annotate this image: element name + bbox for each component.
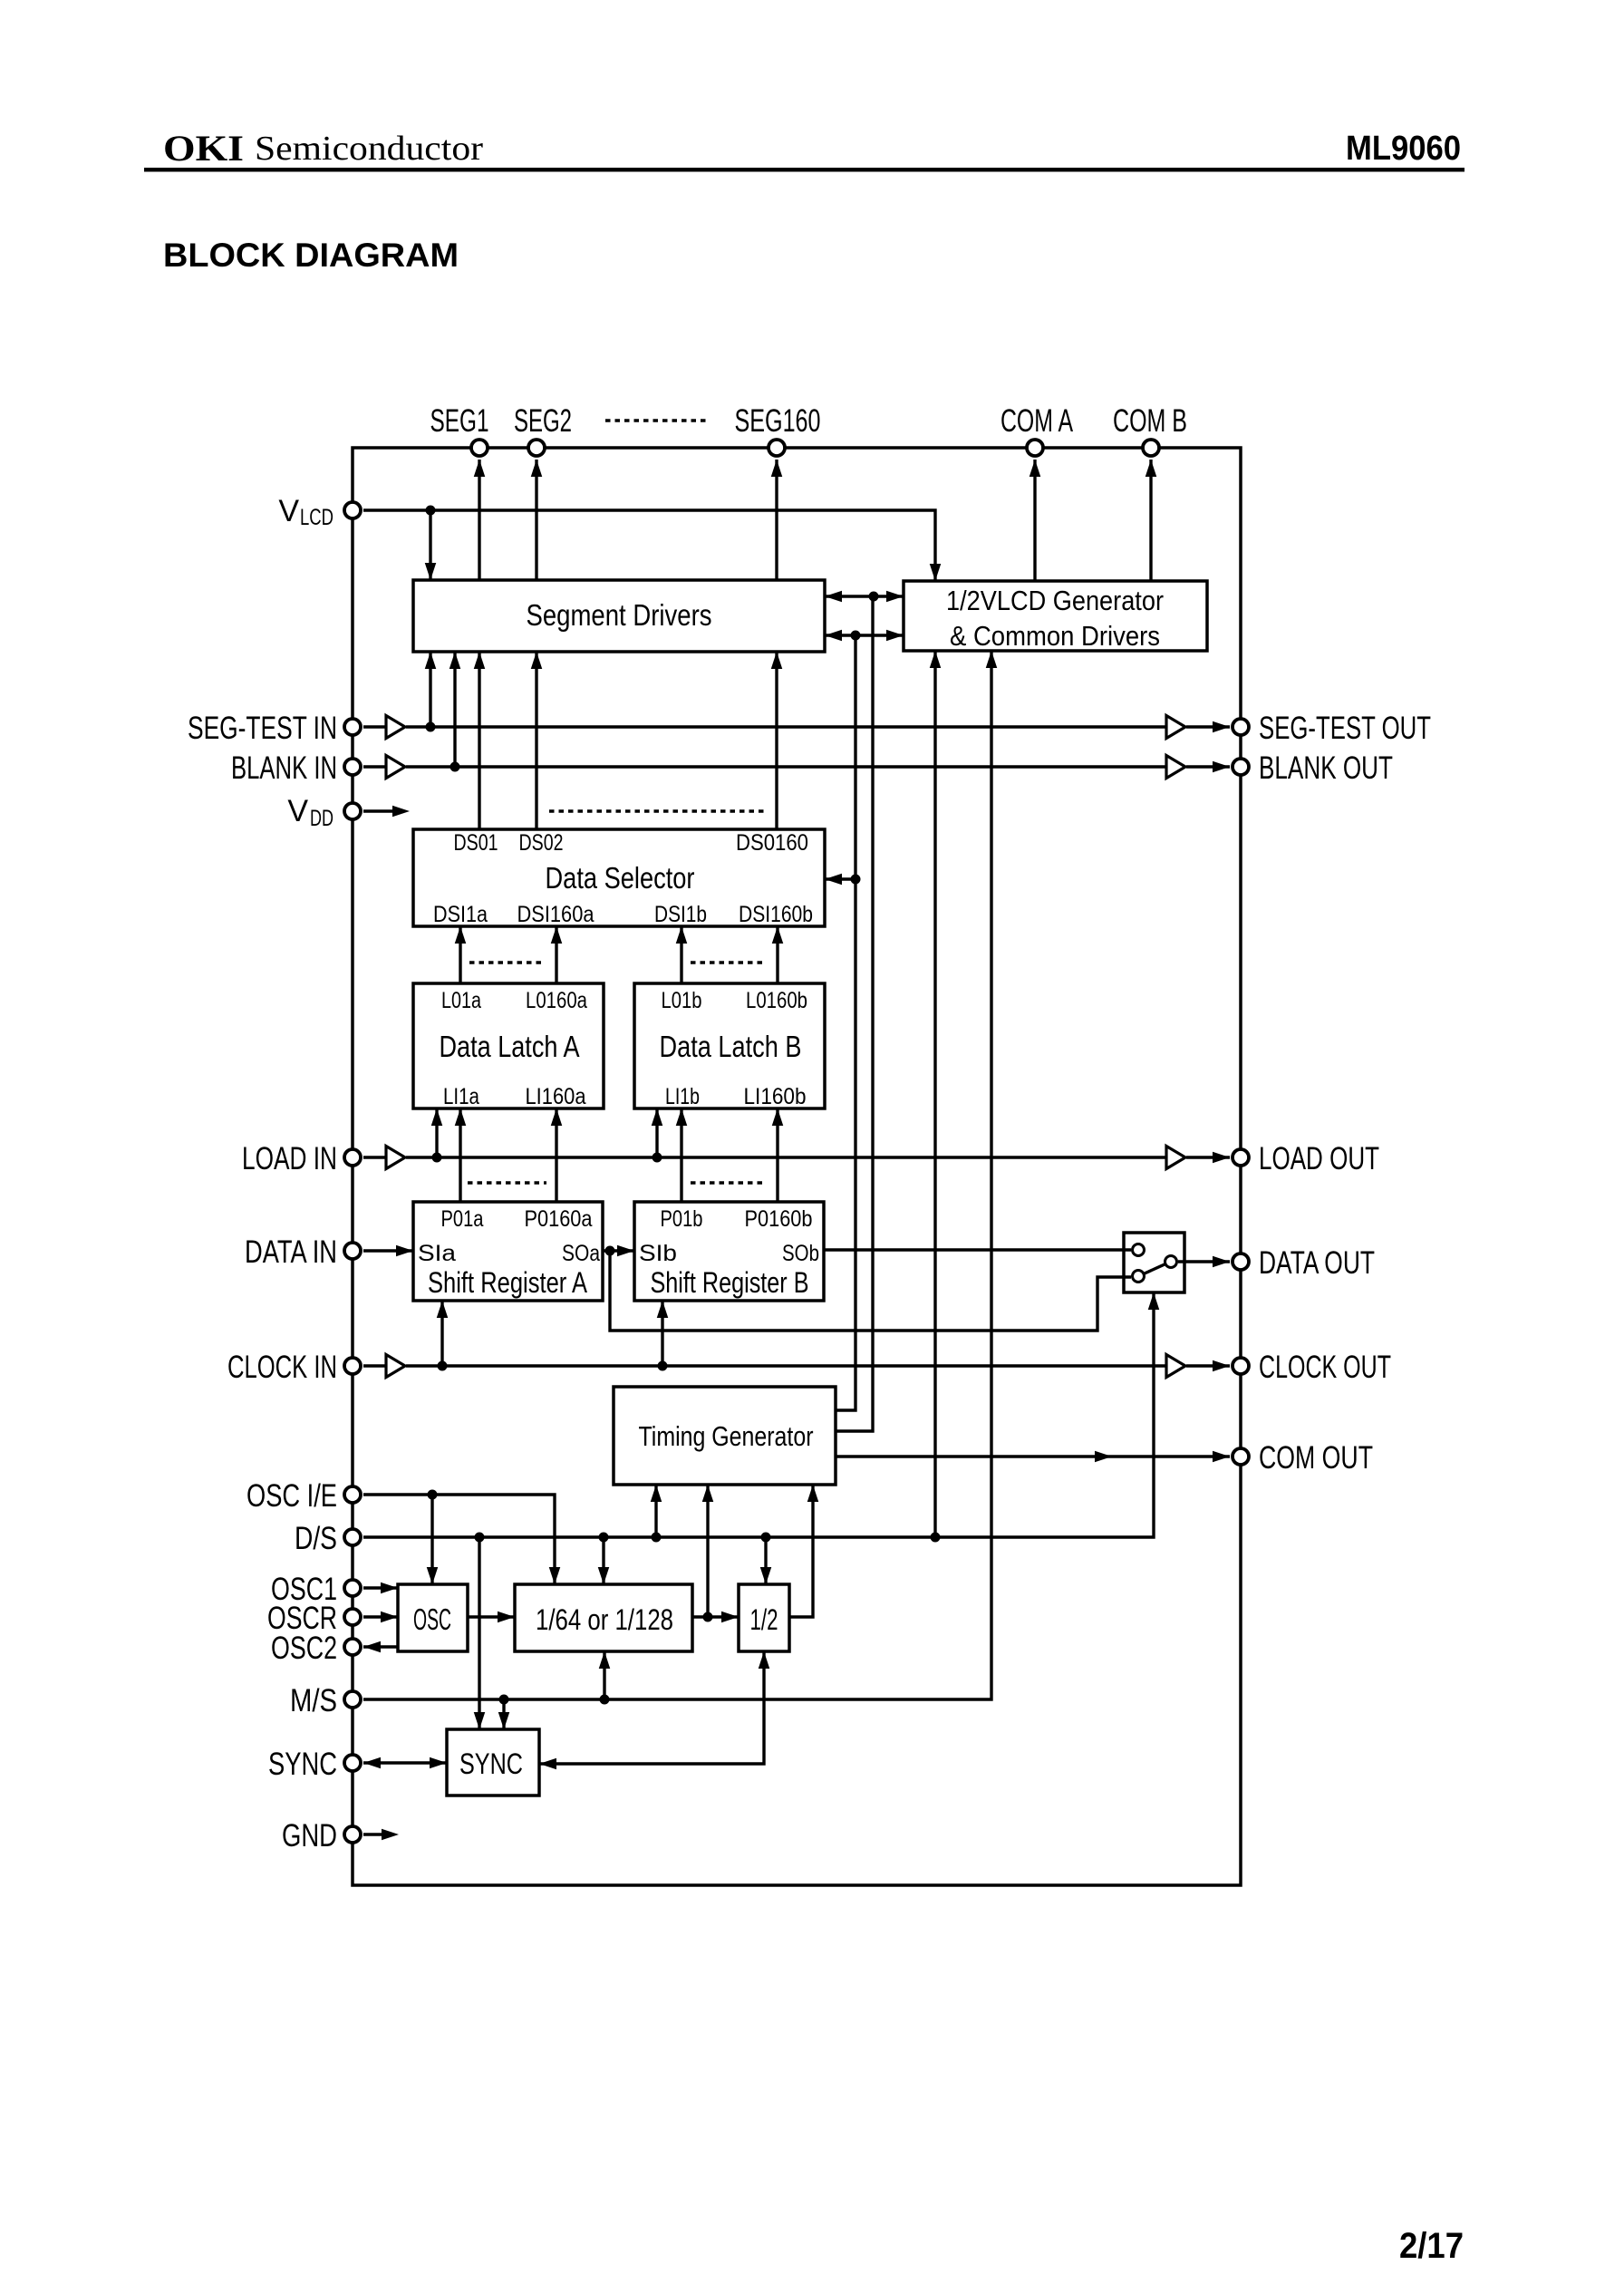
svg-text:2/17: 2/17 [1399, 2226, 1464, 2266]
svg-text:LOAD OUT: LOAD OUT [1259, 1141, 1379, 1176]
svg-text:V: V [278, 494, 299, 528]
svg-text:DSI1a: DSI1a [433, 902, 488, 927]
svg-text:Shift Register A: Shift Register A [428, 1266, 588, 1299]
svg-text:Data Latch B: Data Latch B [660, 1030, 802, 1063]
svg-text:DS0160: DS0160 [736, 830, 808, 856]
svg-text:COM A: COM A [1000, 403, 1073, 439]
svg-text:BLANK IN: BLANK IN [231, 750, 337, 786]
svg-text:BLANK OUT: BLANK OUT [1259, 750, 1393, 786]
svg-text:& Common Drivers: & Common Drivers [950, 620, 1160, 652]
svg-text:Semiconductor: Semiconductor [255, 130, 483, 168]
svg-text:CLOCK IN: CLOCK IN [227, 1350, 337, 1385]
svg-text:SOb: SOb [782, 1241, 819, 1266]
svg-text:L01b: L01b [662, 988, 702, 1013]
svg-text:OSC: OSC [413, 1602, 451, 1636]
svg-text:L01a: L01a [441, 988, 481, 1013]
svg-text:LI1a: LI1a [443, 1084, 479, 1109]
svg-text:OKI: OKI [163, 128, 244, 169]
svg-text:SYNC: SYNC [268, 1747, 337, 1782]
svg-text:L0160b: L0160b [746, 988, 807, 1013]
svg-text:SIa: SIa [418, 1241, 456, 1266]
svg-text:DATA OUT: DATA OUT [1259, 1245, 1375, 1281]
svg-text:1/64 or 1/128: 1/64 or 1/128 [536, 1603, 673, 1636]
svg-text:V: V [287, 794, 308, 828]
svg-text:M/S: M/S [290, 1683, 337, 1718]
svg-text:SEG160: SEG160 [735, 403, 821, 439]
svg-text:LI160a: LI160a [526, 1084, 586, 1109]
svg-text:LI1b: LI1b [665, 1084, 700, 1109]
svg-text:SIb: SIb [639, 1241, 677, 1266]
svg-text:DD: DD [310, 806, 333, 831]
svg-text:SEG2: SEG2 [514, 403, 572, 439]
svg-text:OSC I/E: OSC I/E [246, 1478, 337, 1514]
svg-text:OSC2: OSC2 [271, 1631, 337, 1666]
svg-text:CLOCK OUT: CLOCK OUT [1259, 1350, 1391, 1385]
svg-text:Segment Drivers: Segment Drivers [527, 598, 712, 632]
svg-text:1/2: 1/2 [750, 1603, 778, 1636]
svg-text:SEG-TEST IN: SEG-TEST IN [188, 711, 337, 746]
svg-text:D/S: D/S [295, 1521, 337, 1556]
svg-text:Data Latch A: Data Latch A [440, 1030, 580, 1063]
svg-text:Shift Register B: Shift Register B [651, 1266, 809, 1299]
svg-text:P0160a: P0160a [525, 1206, 593, 1232]
svg-text:COM OUT: COM OUT [1259, 1440, 1373, 1476]
svg-text:ML9060: ML9060 [1346, 130, 1461, 168]
svg-text:LOAD IN: LOAD IN [242, 1141, 337, 1176]
svg-text:DSI160b: DSI160b [739, 902, 813, 927]
svg-text:P01b: P01b [661, 1206, 703, 1232]
svg-text:Timing Generator: Timing Generator [639, 1420, 814, 1452]
svg-text:LI160b: LI160b [744, 1084, 807, 1109]
svg-text:Data Selector: Data Selector [546, 861, 695, 895]
svg-text:SYNC: SYNC [459, 1747, 523, 1780]
svg-text:DS02: DS02 [519, 830, 564, 856]
svg-text:COM B: COM B [1113, 403, 1187, 439]
svg-text:DATA IN: DATA IN [245, 1234, 337, 1270]
svg-text:SOa: SOa [562, 1241, 600, 1266]
svg-text:DSI1b: DSI1b [654, 902, 707, 927]
svg-text:DSI160a: DSI160a [517, 902, 594, 927]
svg-text:1/2VLCD Generator: 1/2VLCD Generator [946, 585, 1164, 616]
svg-text:L0160a: L0160a [526, 988, 587, 1013]
svg-text:P01a: P01a [441, 1206, 484, 1232]
svg-text:GND: GND [282, 1818, 337, 1854]
svg-text:SEG-TEST OUT: SEG-TEST OUT [1259, 711, 1431, 746]
svg-text:LCD: LCD [300, 505, 333, 530]
svg-text:BLOCK DIAGRAM: BLOCK DIAGRAM [163, 237, 459, 274]
svg-text:SEG1: SEG1 [430, 403, 489, 439]
svg-text:DS01: DS01 [454, 830, 498, 856]
svg-text:P0160b: P0160b [745, 1206, 813, 1232]
